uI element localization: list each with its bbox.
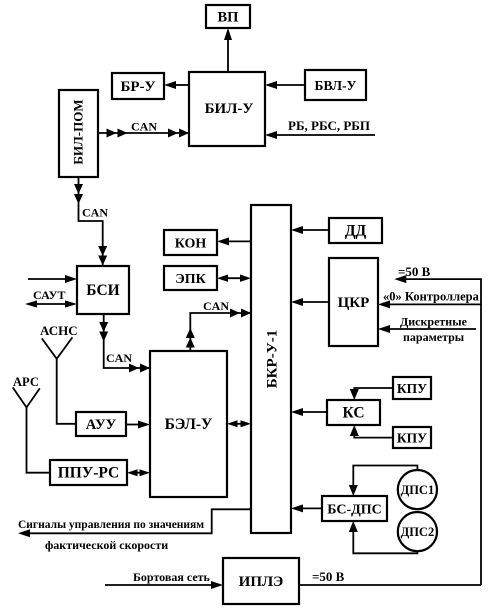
block BEL-U <box>150 351 227 497</box>
svg-text:ДПС1: ДПС1 <box>401 483 435 497</box>
wire =50V top with right vertical bus <box>394 264 481 585</box>
wire BVL-U to BIL-U <box>265 81 305 89</box>
block BIL-U <box>189 72 265 146</box>
svg-text:БСИ: БСИ <box>86 282 119 299</box>
svg-text:БЭЛ-У: БЭЛ-У <box>165 416 213 433</box>
svg-text:КПУ: КПУ <box>397 381 427 396</box>
wire AUU to BEL-U <box>126 421 150 429</box>
block BIL-POM <box>59 90 98 177</box>
wire KPU upper to KS <box>350 388 393 400</box>
svg-text:ДПС2: ДПС2 <box>401 525 435 539</box>
svg-text:БИЛ-У: БИЛ-У <box>205 101 254 117</box>
svg-text:БКР-У-1: БКР-У-1 <box>265 330 281 388</box>
svg-text:ИПЛЭ: ИПЛЭ <box>239 574 284 590</box>
svg-text:CAN: CAN <box>106 351 132 365</box>
wire KS to BKR-U-1 <box>291 408 327 416</box>
wire KPU lower to KS <box>350 425 393 438</box>
block BR-U <box>112 73 164 99</box>
svg-text:CAN: CAN <box>82 206 108 220</box>
block EPK <box>164 266 217 290</box>
svg-text:ЦКР: ЦКР <box>338 295 370 311</box>
block KPU lower <box>393 427 431 448</box>
wire 0-controller to CKR <box>378 290 481 309</box>
block BS-DPS <box>322 496 387 521</box>
wire SAUT in <box>28 275 77 283</box>
svg-text:=50 В: =50 В <box>312 569 345 584</box>
wire CAN BSI down to BEL-U <box>99 314 150 373</box>
svg-text:АРС: АРС <box>13 375 39 389</box>
block BVL-U <box>305 70 366 100</box>
wire DPS1 to BS-DPS <box>349 466 418 497</box>
wire DD to BKR-U-1 <box>291 226 329 234</box>
block PPU-RS <box>50 460 127 485</box>
wire BKR-U-1 to KON <box>217 237 251 245</box>
wire BIL-U to BR-U <box>164 81 189 89</box>
wire CAN BEL-U up to BKR-U-1 <box>186 299 251 351</box>
wire PPU-RS to BEL-U bidirectional <box>127 469 150 476</box>
block KPU upper <box>393 377 431 399</box>
block KS <box>327 400 380 425</box>
svg-text:=50 В: =50 В <box>398 264 431 279</box>
svg-text:ЭПК: ЭПК <box>175 272 206 287</box>
wire speed control signals from BKR-U-1 <box>18 509 251 552</box>
svg-text:КОН: КОН <box>175 237 207 252</box>
wire RB,RBS,RBP to BIL-U <box>265 118 375 139</box>
wire onboard network to IPLE <box>105 570 223 589</box>
svg-text:Сигналы управления по значения: Сигналы управления по значениям <box>18 519 204 531</box>
wire CKR to BKR-U-1 <box>291 298 329 306</box>
svg-text:КПУ: КПУ <box>397 431 427 446</box>
svg-text:параметры: параметры <box>403 330 465 344</box>
svg-text:Бортовая сеть: Бортовая сеть <box>133 570 211 584</box>
wire BIL-U to VP <box>224 28 232 72</box>
svg-text:ВП: ВП <box>218 10 239 26</box>
svg-text:БР-У: БР-У <box>120 79 155 95</box>
block KON <box>164 230 217 255</box>
block VP <box>206 5 250 28</box>
wire CAN BIL-POM to BIL-U <box>98 120 189 138</box>
svg-text:КС: КС <box>342 405 364 422</box>
svg-text:Дискретные: Дискретные <box>400 315 468 329</box>
svg-text:БИЛ-ПОМ: БИЛ-ПОМ <box>71 99 86 164</box>
svg-text:CAN: CAN <box>203 299 229 313</box>
wire IPLE to =50V bus <box>299 569 481 585</box>
svg-text:«0» Контроллера: «0» Контроллера <box>383 290 480 304</box>
block DD <box>329 218 382 243</box>
wire BEL-U to BKR-U-1 bidirectional <box>227 420 251 427</box>
wire SAUT out bidirectional <box>25 300 77 307</box>
wire CAN BIL-POM down to BSI <box>74 177 108 266</box>
block IPLE <box>223 558 299 604</box>
svg-text:ППУ-РС: ППУ-РС <box>58 465 120 482</box>
block BKR-U-1 <box>251 205 291 533</box>
wire discrete parameters to CKR <box>378 315 476 345</box>
svg-text:РБ, РБС, РБП: РБ, РБС, РБП <box>288 118 370 133</box>
svg-text:фактической скорости: фактической скорости <box>45 538 168 552</box>
svg-text:БС-ДПС: БС-ДПС <box>327 503 382 518</box>
wire DPS2 to BS-DPS <box>349 521 418 553</box>
svg-text:БВЛ-У: БВЛ-У <box>315 78 357 93</box>
svg-text:АУУ: АУУ <box>86 417 117 433</box>
svg-text:ДД: ДД <box>345 223 367 240</box>
block BSI <box>77 266 129 314</box>
svg-text:САУТ: САУТ <box>33 288 66 302</box>
antenna ASNS <box>40 323 78 424</box>
antenna ARS <box>13 375 50 473</box>
block AUU <box>76 412 126 436</box>
block CKR <box>329 258 378 346</box>
wire EPK to BKR-U-1 bidirectional <box>217 275 251 282</box>
sensor DPS2 <box>398 512 437 551</box>
sensor DPS1 <box>398 470 437 509</box>
wire BS-DPS to BKR-U-1 <box>291 504 322 512</box>
svg-text:АСНС: АСНС <box>40 323 78 338</box>
svg-text:CAN: CAN <box>131 120 157 134</box>
